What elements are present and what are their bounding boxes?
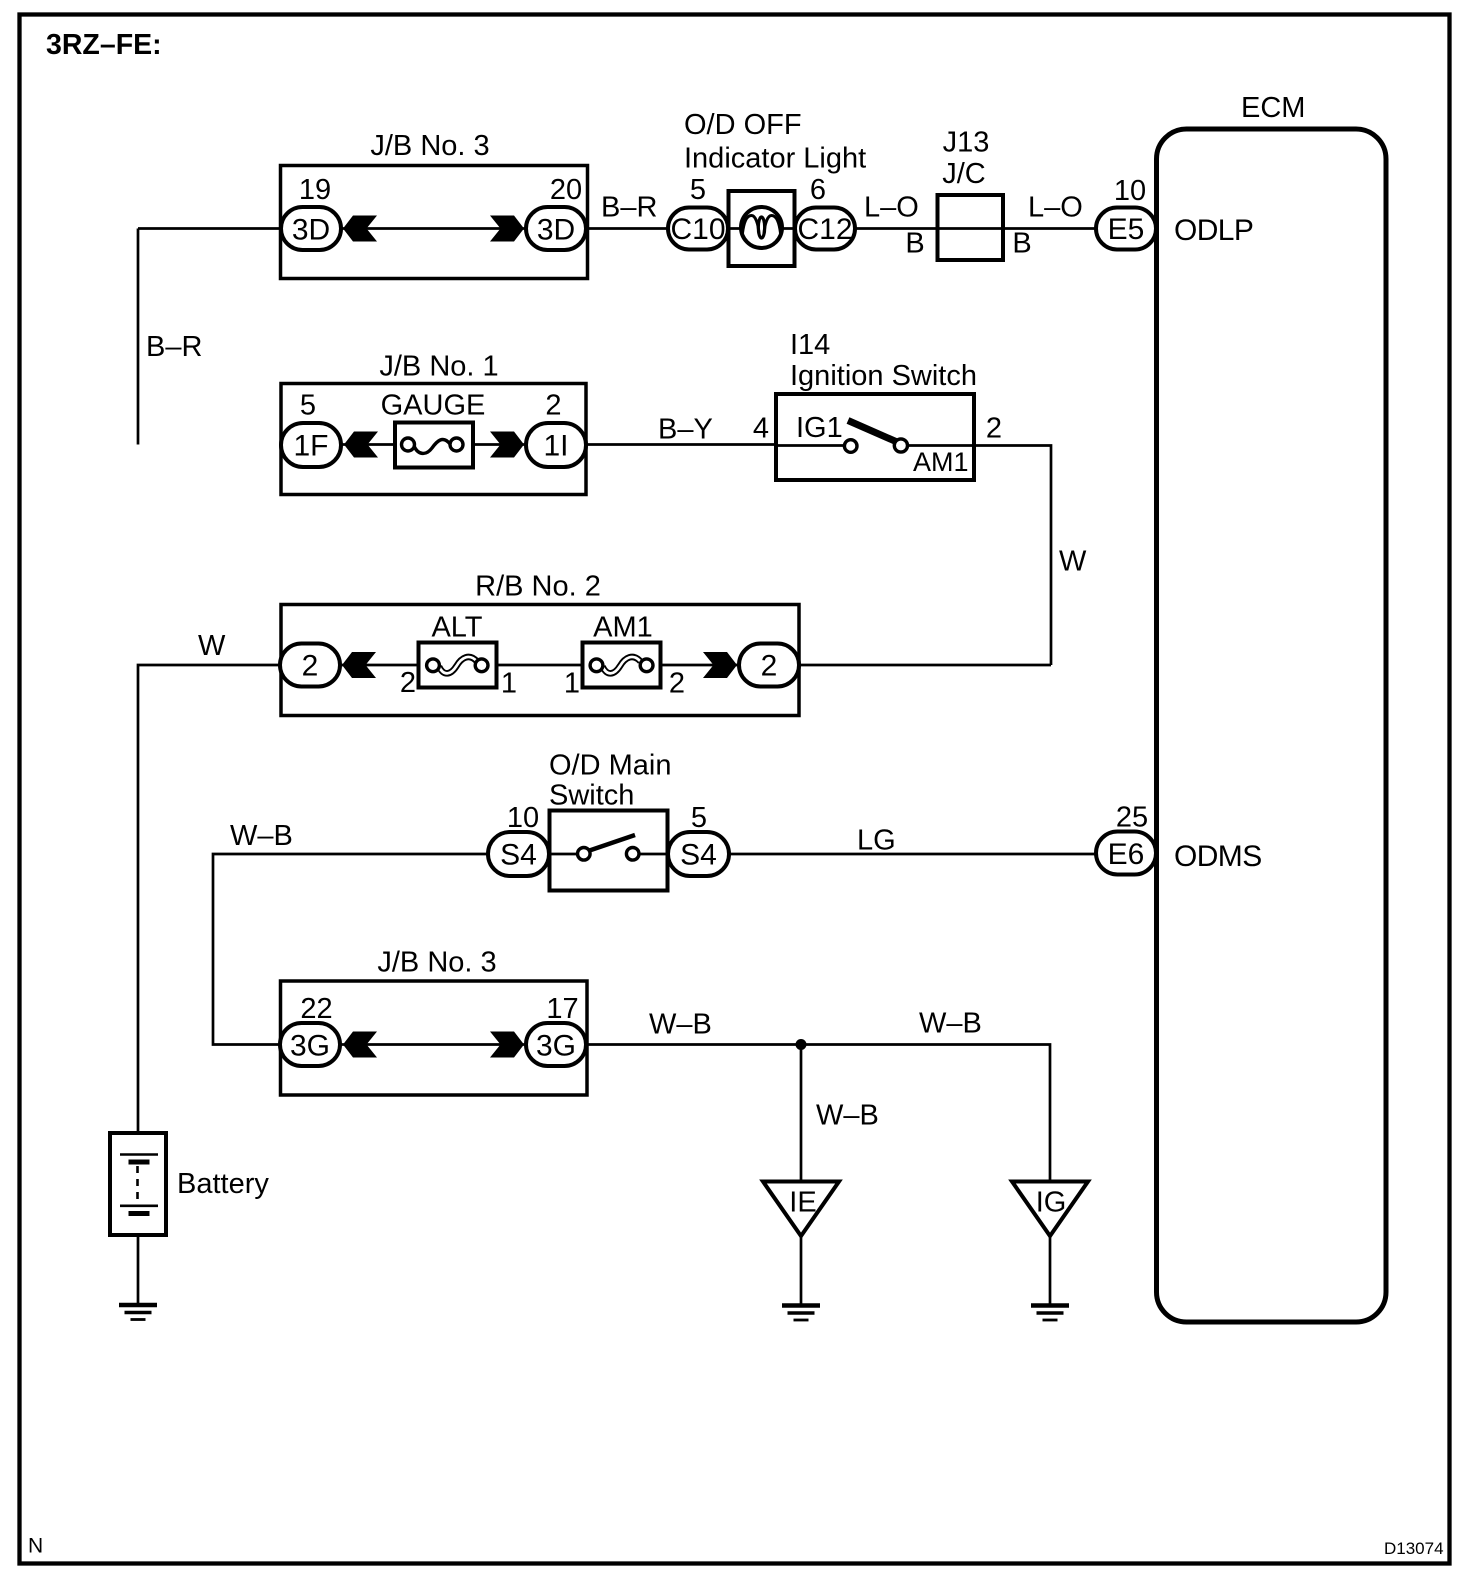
lamp filament [743,216,760,235]
svg-text:W: W [1059,546,1087,578]
connector S4 left [488,832,549,876]
svg-text:J/B No. 3: J/B No. 3 [370,130,489,162]
arrow right (J/B No.3) [490,216,524,242]
svg-text:ODMS: ODMS [1174,840,1262,873]
svg-text:10: 10 [507,802,539,834]
svg-text:ODLP: ODLP [1174,214,1253,247]
svg-text:Indicator Light: Indicator Light [684,143,866,175]
wire B-R vertical left (3D to 1F) [137,229,140,445]
wires inside R/B No.2 [340,664,739,667]
arrow right (R/B No.2) [703,652,737,678]
svg-text:AM1: AM1 [593,612,653,644]
connector S4 right [668,832,729,876]
junction block J/B No.3 (bottom) [281,947,588,1096]
wire W-B left (S4 to 3G) [213,854,488,1045]
svg-text:D13074: D13074 [1384,1539,1444,1558]
wire node to 3D left [138,227,281,230]
svg-text:W–B: W–B [649,1009,712,1041]
arrow left (R/B No.2) [342,652,376,678]
svg-text:6: 6 [810,174,826,206]
svg-text:3G: 3G [290,1030,330,1063]
svg-text:2: 2 [986,413,1002,445]
svg-text:5: 5 [690,174,706,206]
svg-text:R/B No. 2: R/B No. 2 [475,571,601,603]
svg-text:Battery: Battery [177,1168,269,1200]
ground triangle IG [1012,1182,1088,1237]
wire right pill to vertical [799,664,1051,667]
wire 3D to C10 [586,227,668,230]
ground (IE) [782,1306,820,1321]
svg-text:J/C: J/C [942,158,986,190]
svg-text:B–R: B–R [601,192,657,224]
svg-text:E6: E6 [1108,838,1145,871]
svg-text:L–O: L–O [864,192,919,224]
svg-text:Switch: Switch [549,780,634,812]
svg-text:W–B: W–B [919,1008,982,1040]
arrow left (J/B No.3) [343,216,377,242]
arrow left (J/B No.1) [344,432,378,458]
svg-text:GAUGE: GAUGE [381,390,486,422]
connector E6 [1096,832,1156,875]
svg-text:W–B: W–B [230,820,293,852]
svg-text:3G: 3G [536,1030,576,1063]
wire C12 to J13 to E5 [855,227,1096,230]
connector 3G left [280,1023,340,1066]
svg-text:S4: S4 [680,839,717,872]
svg-text:L–O: L–O [1028,192,1083,224]
svg-text:S4: S4 [500,839,537,872]
relay block R/B No.2 [281,571,799,716]
connector C12 [795,208,855,250]
svg-text:IE: IE [789,1187,816,1219]
svg-text:N: N [28,1535,43,1558]
svg-text:O/D OFF: O/D OFF [684,109,802,141]
fuse AM1 [583,612,661,688]
arrow right (J/B No.3 bottom) [490,1032,524,1058]
svg-text:3D: 3D [292,214,330,247]
svg-text:B–Y: B–Y [658,414,713,446]
junction connector J13 J/C [938,127,1004,261]
svg-text:E5: E5 [1108,213,1145,246]
svg-text:O/D Main: O/D Main [549,750,671,782]
switch lever [848,421,897,443]
wire IG to ground [1049,1236,1052,1304]
svg-text:LG: LG [857,825,896,857]
svg-text:W: W [198,630,226,662]
svg-text:22: 22 [300,993,332,1025]
connector 1I [526,423,586,467]
junction block J/B No.1 [281,351,586,495]
wire IE to ground [800,1236,803,1304]
connector E5 [1096,208,1156,250]
wire battery to ground [137,1235,140,1303]
ECM U1 [1157,92,1387,1322]
wire junction to IE [800,1045,803,1182]
svg-text:2: 2 [761,650,778,683]
fuse GAUGE [381,390,486,468]
svg-text:2: 2 [545,390,561,422]
connector 2 left [280,644,340,687]
svg-text:2: 2 [669,668,685,700]
svg-text:ECM: ECM [1241,92,1305,124]
svg-text:C12: C12 [797,213,852,246]
svg-text:J/B No. 1: J/B No. 1 [379,351,498,383]
svg-text:1: 1 [564,668,580,700]
O/D main switch box [550,811,668,891]
wire W left [138,665,280,1133]
svg-text:3D: 3D [537,214,575,247]
svg-text:AM1: AM1 [913,447,969,477]
svg-text:1: 1 [501,668,517,700]
svg-text:ALT: ALT [431,612,482,644]
lamp bulb circle [741,207,782,248]
arrow left (J/B No.3 bottom) [343,1032,377,1058]
ignition switch I14 [776,329,977,480]
svg-text:Ignition Switch: Ignition Switch [790,360,977,392]
connector 3G right [526,1023,586,1066]
svg-text:IG1: IG1 [796,412,843,444]
svg-text:4: 4 [753,413,769,445]
ground (battery) [119,1305,157,1320]
wire LG [729,853,1096,856]
svg-text:25: 25 [1116,802,1148,834]
connector 3D right [526,207,586,250]
svg-text:17: 17 [546,993,578,1025]
svg-text:10: 10 [1114,175,1146,207]
svg-text:20: 20 [550,174,582,206]
svg-text:J13: J13 [943,127,990,159]
svg-text:1F: 1F [293,430,328,463]
battery [110,1133,269,1235]
connector 1F [281,423,341,467]
connector 3D left [281,207,341,250]
svg-text:3RZ–FE:: 3RZ–FE: [46,29,162,61]
svg-text:5: 5 [691,802,707,834]
svg-text:IG: IG [1036,1187,1067,1219]
svg-text:2: 2 [400,667,416,699]
wire ignition to R/B No.2 [975,446,1051,666]
wire 1F row [342,443,777,446]
indicator lamp box [728,191,795,266]
svg-text:B: B [1012,228,1031,260]
connector C10 [668,208,728,250]
svg-text:1I: 1I [543,430,568,463]
wire 3G right to IG with junction [586,1045,1050,1182]
junction block J/B No.3 (top) [281,130,588,279]
junction node [796,1039,807,1050]
fuse ALT [419,612,497,688]
svg-text:B: B [905,228,924,260]
svg-text:J/B No. 3: J/B No. 3 [377,947,496,979]
svg-text:B–R: B–R [146,331,202,363]
svg-text:19: 19 [299,174,331,206]
wire inside J/B No.3 bottom [341,1043,526,1046]
ground triangle IE [763,1182,839,1237]
switch lever [590,835,636,851]
svg-text:C10: C10 [670,213,725,246]
svg-text:W–B: W–B [816,1100,879,1132]
svg-text:5: 5 [300,390,316,422]
svg-text:2: 2 [302,650,319,683]
svg-text:I14: I14 [790,329,830,361]
arrow right (J/B No.1) [490,432,524,458]
wire inside J/B No.3 [341,227,526,230]
ground (IG) [1031,1306,1069,1321]
connector 2 right [739,644,799,687]
